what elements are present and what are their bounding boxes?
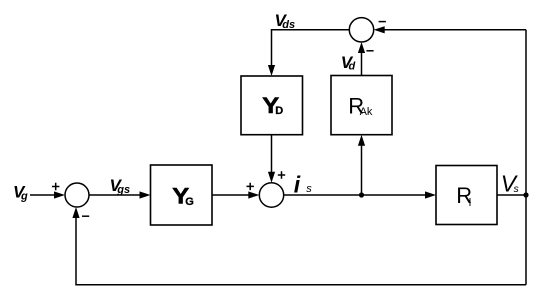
node output junction dot (523, 192, 528, 197)
wire YD to S2 (268, 135, 275, 183)
svg-text:D: D (275, 105, 283, 117)
block Rl (436, 166, 497, 225)
summing junction S3 (349, 18, 373, 42)
wire YG to S2 (212, 191, 259, 198)
svg-text:ds: ds (282, 19, 295, 31)
svg-text:i: i (294, 171, 301, 197)
summing junction S1 (65, 183, 89, 207)
node S1 minus sign (82, 215, 89, 217)
node S2 left plus sign (247, 183, 254, 190)
node S2 top plus sign (278, 171, 285, 178)
block YD (241, 76, 303, 135)
wire Rl to output node (497, 194, 526, 196)
svg-text:s: s (306, 183, 312, 195)
svg-text:g: g (20, 191, 28, 203)
wire S1 to YG (89, 191, 151, 198)
wire input vg (30, 191, 65, 198)
svg-text:Ak: Ak (360, 106, 373, 118)
label vd (341, 53, 356, 73)
node vg plus sign (52, 183, 59, 190)
label vds (275, 11, 296, 31)
block YG (151, 165, 213, 225)
svg-text:G: G (185, 196, 194, 208)
node S3 bottom minus sign (366, 50, 373, 52)
node junction dot (359, 192, 364, 197)
summing junction S2 (259, 183, 283, 207)
block RAk (331, 76, 392, 135)
label vgs (110, 176, 131, 196)
wire right vertical (525, 30, 527, 285)
wire bottom feedback (72, 207, 526, 285)
wire RAk to S3 (358, 42, 365, 76)
svg-text:d: d (349, 61, 356, 73)
svg-text:gs: gs (116, 184, 130, 196)
wire top feedback into S3 (374, 26, 526, 33)
svg-text:s: s (514, 183, 520, 195)
wire S2 to Rl (284, 191, 436, 198)
wire node to RAk (358, 135, 365, 195)
label vg (13, 183, 28, 203)
svg-text:l: l (469, 197, 471, 209)
label Vs (501, 170, 520, 196)
node S3 right minus sign (379, 21, 386, 23)
wire S3 to YD (268, 30, 349, 76)
label is (294, 171, 312, 197)
